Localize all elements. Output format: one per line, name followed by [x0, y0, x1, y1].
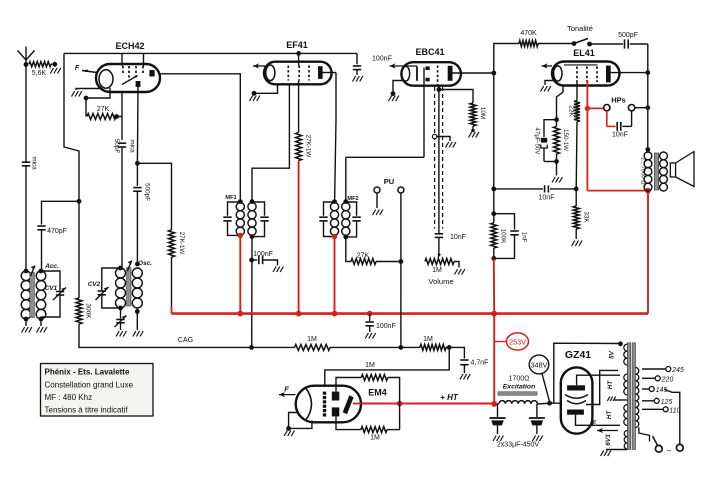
- resistor 22K: [574, 101, 580, 122]
- capacitor 100nF (bus): [369, 314, 371, 321]
- HT center tap: [614, 399, 628, 401]
- tube EBC41: [401, 62, 461, 85]
- ground (volume): [454, 262, 459, 268]
- EL41 anode: [606, 66, 611, 83]
- HPs terminal right: [628, 105, 634, 111]
- capacitor 4,7nF: [449, 347, 464, 358]
- svg-text:1M: 1M: [307, 336, 317, 343]
- winding HT bottom: [624, 405, 627, 426]
- svg-text:300K: 300K: [85, 303, 92, 319]
- svg-text:500pF: 500pF: [144, 183, 151, 201]
- EBC41 anode: [448, 66, 453, 81]
- tap 245: [642, 368, 666, 370]
- svg-text:Volume: Volume: [428, 277, 453, 286]
- resistor 27K-1W (EF41 screen): [296, 133, 302, 161]
- EM4 cathode arc: [306, 388, 312, 421]
- svg-text:~: ~: [667, 447, 672, 456]
- winding HT top: [624, 374, 627, 395]
- wire MF1 sec top to EF41 grid: [252, 84, 289, 201]
- resistor 5,6K: [29, 62, 51, 67]
- tap 220: [642, 377, 655, 379]
- node bus 100nF: [367, 311, 373, 317]
- svg-text:22K: 22K: [568, 105, 575, 117]
- capacitor 33uF left: [497, 404, 499, 417]
- svg-text:CV1: CV1: [45, 285, 58, 292]
- svg-text:HPs: HPs: [611, 96, 626, 105]
- wire EBC41 diodes down: [423, 68, 425, 158]
- ground (5,6K): [54, 64, 56, 67]
- ground (EBC41 filament): [393, 81, 402, 94]
- svg-text:MF1: MF1: [225, 195, 236, 201]
- core transformer: [627, 343, 630, 450]
- wire anode junction up: [494, 44, 519, 74]
- svg-text:50pF: 50pF: [113, 139, 120, 154]
- svg-text:4,7nF: 4,7nF: [471, 360, 489, 367]
- svg-text:253V: 253V: [509, 337, 526, 346]
- svg-text:F: F: [284, 385, 289, 394]
- coil Acc secondary: [36, 271, 46, 281]
- winding mains: [636, 368, 639, 428]
- core Osc: [127, 268, 131, 307]
- svg-text:1700Ω: 1700Ω: [509, 376, 530, 383]
- GZ41 cathode arcs: [565, 395, 588, 399]
- antenna: [25, 47, 27, 65]
- plug right: [676, 444, 683, 451]
- coil MF1 secondary: [248, 203, 256, 211]
- svg-text:100nF: 100nF: [376, 323, 396, 330]
- coil output primary: [644, 152, 652, 160]
- svg-text:I: I: [648, 434, 651, 444]
- svg-text:Tensions à titre indicatif: Tensions à titre indicatif: [45, 406, 129, 415]
- wire GZ41 anode bottom: [576, 415, 621, 426]
- capacitor MF2 primary: [324, 202, 335, 216]
- svg-text:EL41: EL41: [573, 48, 595, 58]
- EM4 target bar: [343, 395, 354, 414]
- wire pot junction down: [400, 262, 402, 348]
- resistor 1M (CAG): [295, 344, 331, 350]
- tap 125: [642, 400, 654, 402]
- wire to 27K-1W: [137, 163, 171, 230]
- wire bus to HT: [493, 314, 495, 404]
- wire det to pot: [376, 261, 401, 263]
- svg-text:EF41: EF41: [286, 40, 308, 50]
- svg-text:MF2: MF2: [347, 196, 358, 202]
- svg-text:27K: 27K: [97, 106, 110, 113]
- resistor 100K: [493, 214, 495, 223]
- EF41 grids: [287, 66, 289, 81]
- wire speaker red down: [647, 191, 649, 314]
- resistor 27K (det): [351, 259, 376, 265]
- EL41 grid arrow: [542, 65, 553, 67]
- ground (6V3): [606, 449, 627, 451]
- wire EL41 cathode: [557, 86, 564, 120]
- capacitor MF1 secondary: [252, 202, 265, 216]
- wire field to GZ41: [537, 402, 550, 405]
- coil MF1 primary: [236, 203, 244, 211]
- wire screen rail: [64, 52, 357, 54]
- svg-text:1M: 1M: [423, 336, 433, 343]
- shield tap: [432, 134, 436, 138]
- svg-text:1nF: 1nF: [521, 232, 528, 243]
- resistor 300K: [76, 298, 82, 324]
- svg-text:Tonalité: Tonalité: [567, 24, 593, 33]
- node bus MF1: [237, 311, 243, 317]
- svg-text:47μF-50V: 47μF-50V: [534, 128, 541, 156]
- capacitor 100nF (EF41 screen): [356, 53, 358, 64]
- capacitor trimmer osc: [120, 308, 122, 319]
- resistor 27K (ECH42): [87, 114, 116, 120]
- svg-text:mica: mica: [129, 139, 136, 153]
- coil output secondary: [660, 152, 668, 160]
- GZ41 anode bottom: [567, 410, 584, 415]
- wire anode down: [493, 73, 495, 189]
- node bus MF2: [332, 311, 338, 317]
- svg-text:27K-1W: 27K-1W: [305, 135, 312, 158]
- svg-text:F: F: [75, 65, 80, 72]
- wire EBC41 anode: [453, 72, 494, 74]
- wire 300K to CAG: [79, 324, 252, 347]
- svg-text:5V: 5V: [609, 350, 616, 359]
- svg-text:HT: HT: [606, 410, 613, 420]
- label 253V: [507, 333, 529, 350]
- wire EM4 grid loop: [325, 347, 449, 387]
- ground (EF41 cathode): [254, 84, 278, 93]
- svg-text:500pF: 500pF: [618, 32, 638, 39]
- wire CAG middle: [252, 346, 295, 348]
- ground (ECH42 filament): [76, 88, 99, 91]
- svg-text:Z : 7000 Ω: Z : 7000 Ω: [640, 157, 646, 185]
- ECH42 hexode anode: [149, 70, 154, 77]
- node bus EF41screen: [296, 311, 302, 317]
- wire diode to MF2 sec: [346, 156, 424, 158]
- svg-text:F: F: [592, 421, 597, 428]
- EBC41 diode plates: [426, 66, 430, 70]
- winding 6V3: [624, 431, 627, 450]
- svg-text:100K: 100K: [500, 229, 507, 245]
- shield dashed: [434, 87, 436, 229]
- wire +HT: [353, 402, 494, 404]
- svg-text:245: 245: [671, 367, 684, 374]
- wire HT bus: [172, 312, 649, 315]
- winding 5V: [624, 344, 627, 365]
- wire antenna down: [25, 65, 27, 159]
- core output: [654, 153, 658, 190]
- svg-text:Osc.: Osc.: [138, 260, 152, 267]
- ground (EM4 cathode): [289, 413, 298, 429]
- resistor 1M (CAG 2): [401, 346, 420, 348]
- resistor 10M: [439, 90, 473, 104]
- svg-text:GZ41: GZ41: [565, 349, 591, 361]
- wire EL41 g2 red: [586, 80, 588, 108]
- coil Osc grid: [116, 268, 126, 278]
- tap 145: [642, 388, 649, 390]
- capacitor 10nF (det): [435, 233, 443, 235]
- capacitor 10nF (coupling): [494, 188, 543, 190]
- capacitor CV1: [41, 271, 60, 291]
- wire ECH42 anode: [160, 74, 240, 202]
- svg-text:100nF: 100nF: [253, 251, 273, 258]
- resistor 150-1W: [556, 120, 558, 127]
- wire 100K to bus: [493, 258, 495, 313]
- PU terminal left: [374, 187, 380, 193]
- EF41 filament: [266, 65, 275, 81]
- tap 110: [642, 408, 663, 410]
- wire EL41 g1: [576, 82, 578, 101]
- coil MF2 primary: [330, 203, 338, 211]
- svg-text:Acc.: Acc.: [44, 263, 59, 270]
- wire rail left corner: [64, 53, 79, 298]
- svg-text:125: 125: [661, 399, 673, 406]
- speaker: [670, 163, 675, 177]
- svg-text:Constellation grand Luxe: Constellation grand Luxe: [45, 381, 134, 390]
- node 100nF tap: [249, 258, 254, 263]
- wire MF2 sec bottom: [346, 237, 351, 262]
- EL41 grids: [576, 67, 578, 83]
- svg-text:HT: HT: [607, 380, 614, 390]
- svg-text:2x33μF-450V: 2x33μF-450V: [497, 442, 539, 449]
- wire 145 to plug: [665, 390, 680, 445]
- node triode anode junction: [136, 87, 139, 163]
- core Acc: [30, 273, 35, 318]
- info box: [41, 364, 154, 417]
- EBC41 grid arrow: [390, 65, 418, 67]
- wire HPs right: [635, 107, 648, 109]
- resistor 33K: [575, 189, 577, 206]
- ECH42 filament: [99, 70, 113, 88]
- svg-text:Excitation: Excitation: [503, 384, 535, 391]
- capacitor MF1 primary: [228, 202, 241, 216]
- svg-text:ECH42: ECH42: [115, 41, 144, 51]
- svg-text:10nF: 10nF: [612, 132, 628, 139]
- label 348V: [529, 355, 549, 374]
- ground (Osc tuned): [136, 308, 138, 330]
- svg-text:+ HT: + HT: [440, 393, 459, 402]
- svg-text:150-1W: 150-1W: [562, 129, 569, 151]
- wire EF41 anode: [321, 72, 336, 74]
- GZ41 anode top: [567, 385, 585, 390]
- ground (Acc primary): [25, 319, 27, 326]
- wire GZ41 cathode right: [586, 370, 618, 404]
- PU terminal right: [398, 187, 404, 193]
- svg-text:470pF: 470pF: [47, 228, 67, 235]
- tube GZ41: [561, 367, 593, 433]
- resistor 27K-1W (osc): [169, 230, 175, 257]
- svg-text:220: 220: [661, 376, 674, 383]
- svg-text:10nF: 10nF: [450, 234, 466, 241]
- wire 27K-1W to bus: [171, 257, 173, 306]
- wire EF41 screen: [298, 53, 300, 65]
- svg-text:1M: 1M: [432, 267, 442, 274]
- svg-text:100nF: 100nF: [372, 56, 392, 63]
- capacitor 47uF-50V: [544, 120, 557, 137]
- capacitor CV2: [102, 268, 121, 290]
- pot wiper arrow: [438, 253, 441, 259]
- node 470pF junction: [77, 199, 82, 204]
- wire GZ41 top: [554, 343, 620, 403]
- resistor 470K: [519, 41, 538, 47]
- svg-text:470K: 470K: [520, 30, 537, 37]
- tube ECH42: [96, 64, 160, 92]
- coil Osc tuned: [132, 268, 142, 278]
- capacitor 470pF: [42, 201, 80, 224]
- field coil hatch: [498, 392, 537, 395]
- EF41 anode: [318, 66, 323, 79]
- EF41 grid arrow: [253, 65, 265, 67]
- svg-text:27K-1W: 27K-1W: [178, 232, 185, 255]
- svg-text:mica: mica: [31, 156, 38, 170]
- resistor 1M (EM4 bottom): [336, 416, 361, 429]
- tube EL41: [552, 62, 620, 86]
- ground (Acc secondary): [40, 319, 42, 326]
- wire MF1 pri bottom red: [239, 235, 241, 313]
- svg-text:Phénix - Ets. Lavalette: Phénix - Ets. Lavalette: [45, 368, 130, 377]
- ECH42 diagonal grid: [122, 76, 138, 85]
- capacitor MF2 secondary: [346, 202, 357, 216]
- svg-text:CAG: CAG: [178, 337, 193, 344]
- plug left: [655, 445, 662, 452]
- switch tonalite: [574, 39, 588, 44]
- resistor 1M volume: [425, 259, 454, 265]
- ECH42 triode anode: [136, 81, 141, 87]
- svg-text:348V: 348V: [531, 360, 548, 369]
- wire EM4 target red: [353, 403, 361, 405]
- svg-text:27K: 27K: [357, 253, 370, 260]
- wire screen red drop: [298, 161, 300, 314]
- svg-text:6V3: 6V3: [605, 434, 612, 446]
- ground (EL41 filament): [545, 81, 555, 86]
- svg-text:EM4: EM4: [368, 388, 387, 398]
- svg-text:EBC41: EBC41: [415, 47, 444, 57]
- EL41 top line: [564, 64, 598, 66]
- svg-text:5,6K: 5,6K: [32, 70, 47, 77]
- capacitor 10nF (HPs): [606, 111, 608, 127]
- ground (cathode EL41): [556, 162, 558, 176]
- capacitor 100nF (AVC): [252, 259, 258, 261]
- svg-text:PU: PU: [384, 177, 394, 186]
- wire ECH42 cathode: [86, 88, 110, 98]
- EBC41 filament: [402, 66, 410, 81]
- wire MF1 sec bottom (AVC): [251, 237, 253, 348]
- EBC41 grid bar: [416, 66, 418, 80]
- switch mains: [639, 427, 650, 435]
- svg-text:110: 110: [669, 407, 680, 414]
- coil Acc primary: [21, 271, 31, 281]
- capacitor 50pF: [118, 142, 126, 144]
- resistor 1M (EM4 top): [336, 378, 361, 392]
- wire tone down: [647, 44, 649, 152]
- coil excitation: [499, 401, 537, 404]
- capacitor 33uF right: [536, 404, 538, 417]
- svg-text:1M: 1M: [365, 362, 375, 369]
- svg-text:10nF: 10nF: [539, 195, 555, 202]
- wire osc grid: [121, 92, 123, 117]
- EBC41 dashed grid: [437, 66, 439, 86]
- svg-text:33K: 33K: [583, 211, 590, 223]
- wire MF2 pri bottom red: [334, 237, 336, 314]
- wire 470K to switch: [538, 43, 574, 45]
- wire det line: [438, 86, 440, 233]
- tube EM4: [296, 386, 361, 423]
- capacitor 500pF (osc): [136, 163, 138, 186]
- wire EL41 anode: [611, 72, 648, 74]
- tube EF41: [264, 62, 332, 85]
- EM4 grid squares: [323, 392, 326, 395]
- svg-text:MF : 480 Khz: MF : 480 Khz: [45, 393, 93, 402]
- svg-text:1M: 1M: [370, 435, 380, 442]
- HPs terminal left: [604, 105, 610, 111]
- node bus main: [491, 311, 497, 317]
- capacitor 500pF (tone): [590, 43, 624, 45]
- EM4 deflector bottom: [332, 407, 340, 416]
- svg-text:CV2: CV2: [88, 281, 101, 288]
- wire g2 red down: [586, 108, 588, 190]
- wire GZ41 anode top: [577, 375, 620, 385]
- svg-text:10M: 10M: [479, 107, 486, 119]
- capacitor mica (antenna): [22, 161, 30, 163]
- node 1nF junction: [493, 189, 495, 214]
- ECH42 grids: [122, 66, 124, 74]
- coil MF2 secondary: [342, 203, 350, 211]
- EM4 deflector top: [332, 392, 340, 401]
- EL41 filament: [554, 66, 562, 81]
- capacitor 1nF: [494, 214, 515, 230]
